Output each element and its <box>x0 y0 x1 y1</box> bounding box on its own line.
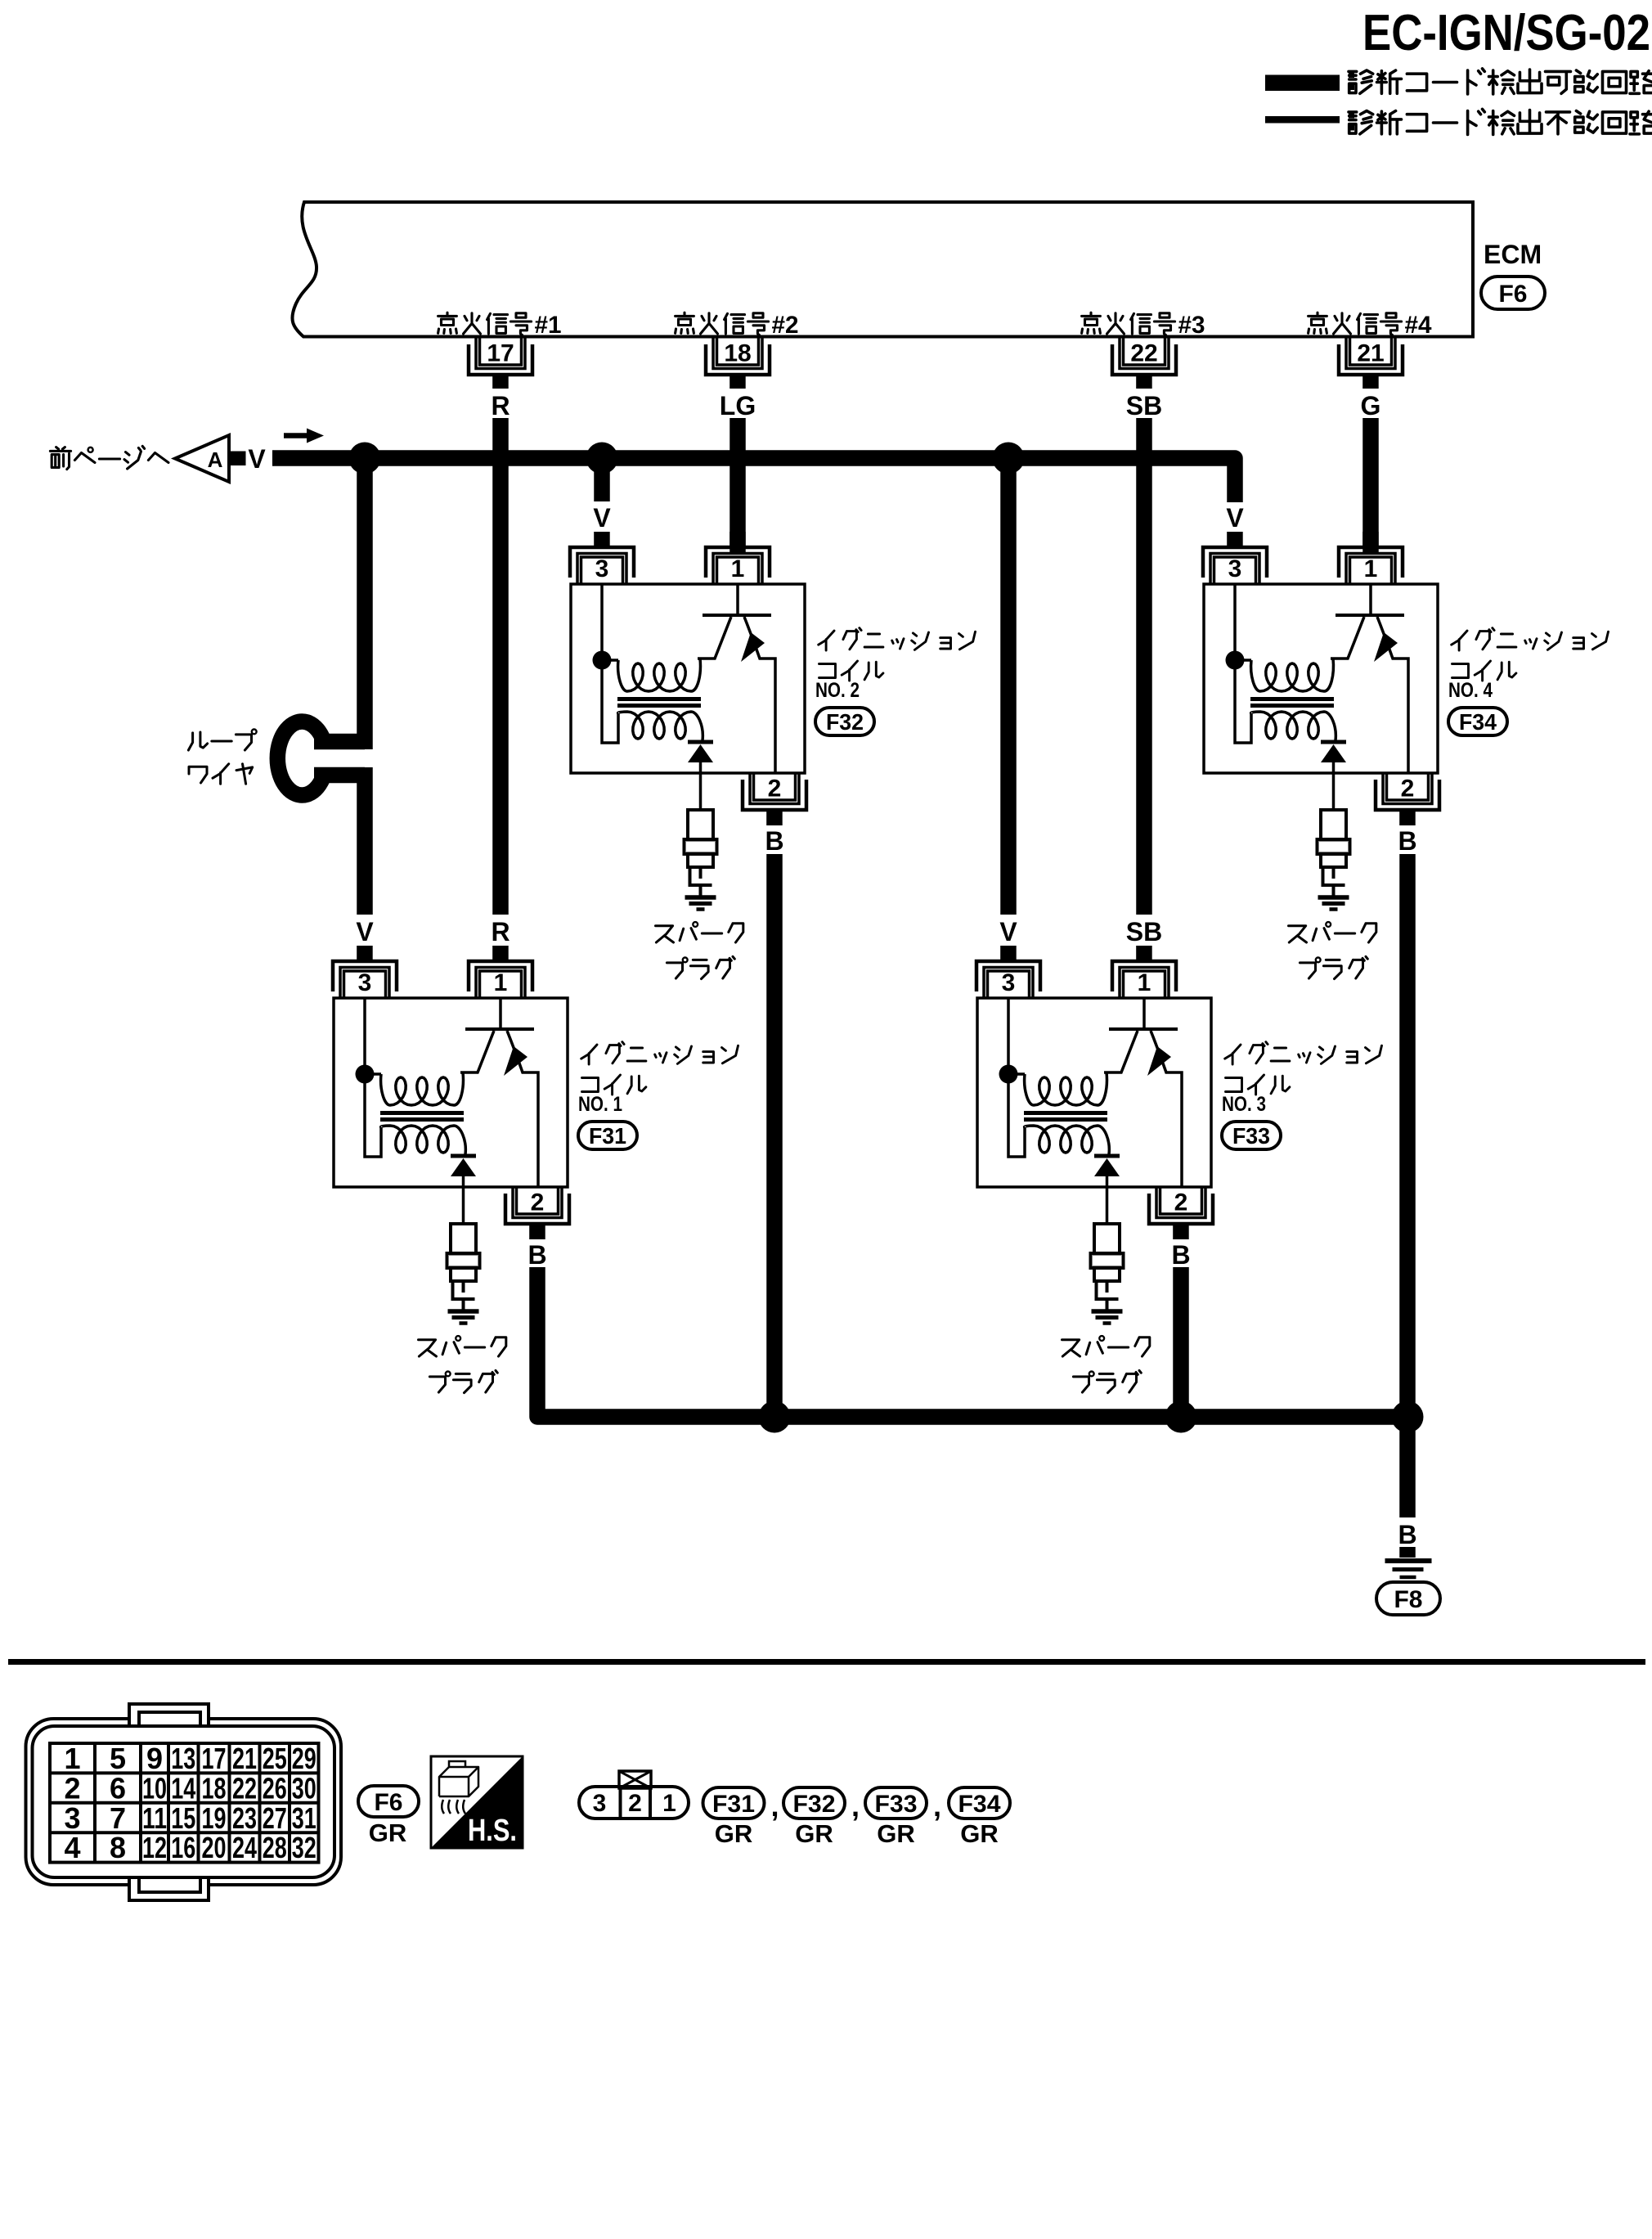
svg-text:#2: #2 <box>772 312 799 339</box>
svg-text:,: , <box>851 1789 860 1823</box>
diode D1 (HV arrow) <box>451 1156 476 1187</box>
svg-text:2: 2 <box>628 1790 642 1817</box>
svg-text:17: 17 <box>487 340 514 367</box>
transformer T4 core <box>1250 699 1334 706</box>
ECM signal label ignition signal #4 <box>1309 312 1432 339</box>
transformer T1 secondary winding <box>381 1126 466 1154</box>
svg-text:1: 1 <box>494 969 508 996</box>
node A off-page arrow (to previous page) <box>50 435 266 482</box>
junction dot bus/coil3 B <box>1165 1401 1197 1433</box>
svg-text:25: 25 <box>263 1742 287 1775</box>
ground connector oval F8 <box>1376 1582 1440 1615</box>
svg-text:18: 18 <box>202 1771 227 1805</box>
ECM signal label ignition signal #2 <box>676 312 799 339</box>
transistor Q2 (power stage) <box>698 584 775 773</box>
legend thick-line bar (diagnostic code detectable) <box>1265 75 1340 92</box>
svg-text:NO. 3: NO. 3 <box>1222 1093 1266 1116</box>
svg-text:1: 1 <box>662 1790 676 1817</box>
spark plug ground (coil NO.1) <box>448 1311 479 1324</box>
transformer T2 primary winding <box>602 584 700 743</box>
transformer T1 core <box>380 1113 464 1120</box>
ECM signal label ignition signal #3 <box>1082 312 1205 339</box>
diode D4 (HV arrow) <box>1321 742 1346 773</box>
svg-text:7: 7 <box>110 1801 126 1835</box>
coil name label NO.1 <box>578 1042 738 1116</box>
svg-text:,: , <box>933 1789 941 1823</box>
ECM signal label ignition signal #1 <box>438 312 562 339</box>
svg-text:3: 3 <box>1002 969 1016 996</box>
spark plug (coil NO.3) <box>1091 1224 1124 1310</box>
coil connector oval F34 <box>1448 708 1507 735</box>
svg-text:SB: SB <box>1126 391 1162 420</box>
ground wire stub <box>1399 1547 1416 1558</box>
svg-text:B: B <box>527 1240 546 1270</box>
connector oval F6 (bottom) <box>358 1786 419 1817</box>
svg-text:28: 28 <box>263 1831 287 1864</box>
node dot coil3 primary tap <box>999 1065 1018 1084</box>
transistor Q4 (power stage) <box>1331 584 1408 773</box>
svg-text:GR: GR <box>877 1819 915 1848</box>
svg-text:23: 23 <box>232 1801 257 1835</box>
node dot coil4 primary tap <box>1226 651 1245 670</box>
spark plug label (coil NO.4) <box>1289 922 1376 979</box>
svg-text:B: B <box>1398 826 1416 856</box>
wire: V drop to coil No.1 (lower) <box>357 767 373 915</box>
spark plug (coil NO.1) <box>447 1224 480 1310</box>
wire B: coil3 pin2 down <box>1173 1267 1189 1425</box>
svg-text:F31: F31 <box>589 1123 626 1149</box>
diode D3 (HV arrow) <box>1094 1156 1120 1187</box>
svg-text:NO. 2: NO. 2 <box>815 679 860 702</box>
wire coil1 to spark plug <box>462 1187 465 1224</box>
svg-text:32: 32 <box>292 1831 316 1864</box>
svg-text:2: 2 <box>531 1189 545 1216</box>
svg-text:27: 27 <box>263 1801 287 1835</box>
svg-text:,: , <box>770 1789 779 1823</box>
svg-text:1: 1 <box>1138 969 1151 996</box>
svg-text:8: 8 <box>110 1831 126 1864</box>
wire B: coil2 pin2 down <box>766 854 783 1425</box>
wire G: ECM 21 to coil4 pin1 <box>1362 418 1379 554</box>
spark plug (coil NO.2) <box>685 810 717 896</box>
node dot coil2 primary tap <box>593 651 612 670</box>
coil2 pin 3 connector <box>570 532 634 584</box>
svg-text:11: 11 <box>142 1801 167 1835</box>
coil connector oval F32 <box>815 708 874 735</box>
svg-text:19: 19 <box>202 1801 227 1835</box>
svg-text:SB: SB <box>1126 917 1162 946</box>
svg-text:F6: F6 <box>1498 281 1527 308</box>
wire coil4 to spark plug <box>1332 773 1336 810</box>
svg-text:F34: F34 <box>1459 709 1497 735</box>
ECM pin 17 connector <box>469 338 532 389</box>
ECM connector oval F6 <box>1481 277 1545 309</box>
coil1 pin 2 connector <box>505 1187 569 1239</box>
svg-text:30: 30 <box>292 1771 316 1805</box>
coil4 pin 3 connector <box>1203 532 1267 584</box>
svg-text:F33: F33 <box>1232 1123 1270 1149</box>
svg-text:3: 3 <box>358 969 372 996</box>
transformer T3 secondary winding <box>1025 1126 1110 1154</box>
svg-text:F6: F6 <box>374 1789 402 1816</box>
coil3 pin 1 connector <box>1112 946 1176 998</box>
svg-text:B: B <box>1398 1520 1416 1549</box>
svg-text:LG: LG <box>720 391 756 420</box>
svg-text:V: V <box>248 444 266 474</box>
svg-text:#4: #4 <box>1405 312 1432 339</box>
coil1 pin 1 connector <box>469 946 532 998</box>
coil4 pin 1 connector <box>1339 532 1403 584</box>
coil3 pin 2 connector <box>1149 1187 1213 1239</box>
H.S. (harness side) icon <box>431 1756 523 1848</box>
wire LG: ECM 18 to coil2 pin1 <box>729 418 746 554</box>
wire: top V bus <box>272 458 1235 502</box>
ground symbol F8 <box>1385 1561 1432 1577</box>
svg-text:GR: GR <box>715 1819 753 1848</box>
ignition coil NO.1 box <box>334 998 568 1187</box>
svg-text:2: 2 <box>1401 776 1415 803</box>
junction dot bus/coil2 B <box>759 1401 791 1433</box>
svg-text:5: 5 <box>110 1742 126 1775</box>
junction dot bus/coil4 B <box>1392 1401 1424 1433</box>
svg-text:6: 6 <box>110 1771 126 1805</box>
svg-text:3: 3 <box>593 1790 607 1817</box>
junction dot bus/coil2 <box>586 443 618 474</box>
coil4 pin 2 connector <box>1376 773 1439 825</box>
svg-text:B: B <box>765 826 783 856</box>
svg-text:18: 18 <box>724 340 751 367</box>
svg-text:V: V <box>356 917 374 946</box>
ignition coil NO.3 box <box>977 998 1211 1187</box>
ECM box U1 <box>292 202 1473 337</box>
svg-text:NO. 4: NO. 4 <box>1448 679 1493 702</box>
svg-text:17: 17 <box>202 1742 227 1775</box>
coil2 pin 1 connector <box>706 532 770 584</box>
svg-text:29: 29 <box>292 1742 316 1775</box>
coil3 pin 3 connector <box>976 946 1040 998</box>
transformer T1 primary winding <box>365 998 463 1157</box>
svg-text:22: 22 <box>1130 340 1157 367</box>
svg-text:R: R <box>491 391 510 420</box>
wire: V drop to coil No.3 <box>1000 458 1017 915</box>
svg-text:V: V <box>1226 503 1244 533</box>
wire: V drop to coil No.1 (upper) <box>357 458 373 749</box>
transformer T3 core <box>1024 1113 1107 1120</box>
svg-text:A: A <box>208 447 223 472</box>
connector oval F31 (bottom) <box>703 1787 765 1819</box>
flow direction arrow <box>284 429 324 443</box>
transistor Q1 (power stage) <box>460 998 538 1187</box>
transformer T4 primary winding <box>1235 584 1333 743</box>
transformer T4 secondary winding <box>1251 712 1336 740</box>
svg-text:1: 1 <box>64 1742 80 1775</box>
svg-text:31: 31 <box>292 1801 316 1835</box>
wire coil3 to spark plug <box>1106 1187 1109 1224</box>
transformer T2 core <box>617 699 701 706</box>
ECM pin 18 connector <box>706 338 770 389</box>
svg-text:F33: F33 <box>875 1791 918 1818</box>
loop wire label <box>188 730 256 785</box>
coil connector oval F31 <box>578 1122 637 1149</box>
svg-text:4: 4 <box>64 1831 80 1864</box>
svg-text:EC-IGN/SG-02: EC-IGN/SG-02 <box>1362 5 1650 61</box>
legend text: code detectable circuit <box>1349 69 1652 94</box>
coil name label NO.3 <box>1222 1042 1382 1116</box>
legend text: code not detectable circuit <box>1349 109 1652 134</box>
wire SB: ECM 22 to coil3 pin1 <box>1136 418 1152 915</box>
transistor Q3 (power stage) <box>1104 998 1182 1187</box>
spark plug label (coil NO.1) <box>419 1336 506 1393</box>
transformer T2 secondary winding <box>618 712 703 740</box>
svg-text:GR: GR <box>369 1819 407 1847</box>
svg-text:2: 2 <box>768 776 782 803</box>
svg-text:1: 1 <box>1364 555 1378 582</box>
ECM pin 22 connector <box>1112 338 1176 389</box>
svg-text:F8: F8 <box>1394 1586 1422 1613</box>
coil connector oval F33 <box>1222 1122 1281 1149</box>
svg-text:26: 26 <box>263 1771 287 1805</box>
spark plug label (coil NO.2) <box>656 922 743 979</box>
ignition coil NO.2 box <box>571 584 805 773</box>
spark plug ground (coil NO.3) <box>1092 1311 1123 1324</box>
svg-text:21: 21 <box>232 1742 257 1775</box>
svg-text:F34: F34 <box>958 1791 1001 1818</box>
svg-text:V: V <box>999 917 1017 946</box>
loop wire <box>277 722 365 795</box>
svg-text:21: 21 <box>1357 340 1384 367</box>
svg-text:20: 20 <box>202 1831 227 1864</box>
svg-text:2: 2 <box>1174 1189 1188 1216</box>
ECM pin 21 connector <box>1339 338 1403 389</box>
svg-text:F32: F32 <box>826 709 864 735</box>
wire coil2 to spark plug <box>699 773 703 810</box>
svg-text:#1: #1 <box>535 312 562 339</box>
connector oval F33 (bottom) <box>865 1787 927 1819</box>
svg-text:V: V <box>593 503 611 533</box>
svg-text:NO. 1: NO. 1 <box>578 1093 622 1116</box>
svg-text:B: B <box>1171 1240 1190 1270</box>
svg-text:ECM: ECM <box>1484 240 1542 269</box>
svg-text:GR: GR <box>960 1819 999 1848</box>
coil 3-pin connector face view <box>579 1771 689 1819</box>
transformer T3 primary winding <box>1008 998 1107 1157</box>
svg-text:22: 22 <box>232 1771 257 1805</box>
svg-text:#3: #3 <box>1178 312 1205 339</box>
wire R: ECM 17 to coil1 pin1 <box>492 418 509 915</box>
svg-text:GR: GR <box>795 1819 833 1848</box>
svg-text:G: G <box>1361 391 1381 420</box>
spark plug (coil NO.4) <box>1318 810 1350 896</box>
legend thin-line bar (diagnostic code not detectable) <box>1265 116 1340 124</box>
junction dot bus/coil3 <box>993 443 1025 474</box>
page divider rule <box>8 1659 1645 1665</box>
svg-text:9: 9 <box>146 1742 163 1775</box>
wire B: coil4 pin2 down <box>1399 854 1416 1425</box>
svg-text:F31: F31 <box>712 1791 755 1818</box>
svg-text:24: 24 <box>232 1831 257 1864</box>
wire B: coil1 pin2 to ground bus <box>537 1267 1407 1417</box>
spark plug ground (coil NO.2) <box>685 897 716 910</box>
wire: ground drop <box>1399 1417 1416 1517</box>
coil2 pin 2 connector <box>743 773 806 825</box>
svg-text:3: 3 <box>595 555 609 582</box>
connector oval F34 (bottom) <box>949 1787 1010 1819</box>
ECM 32-pin connector face view <box>26 1702 342 1900</box>
svg-text:15: 15 <box>171 1801 195 1835</box>
coil1 pin 3 connector <box>333 946 397 998</box>
svg-text:3: 3 <box>1228 555 1242 582</box>
coil name label NO.2 <box>815 628 976 702</box>
ECM connector pin grid <box>50 1742 319 1864</box>
svg-text:12: 12 <box>142 1831 167 1864</box>
coil name label NO.4 <box>1448 628 1609 702</box>
svg-text:14: 14 <box>171 1771 195 1805</box>
svg-text:16: 16 <box>171 1831 195 1864</box>
node dot coil1 primary tap <box>356 1065 375 1084</box>
svg-text:3: 3 <box>64 1801 80 1835</box>
svg-text:1: 1 <box>731 555 745 582</box>
connector oval F32 (bottom) <box>783 1787 845 1819</box>
ignition coil NO.4 box <box>1204 584 1438 773</box>
svg-text:R: R <box>491 917 510 946</box>
junction dot bus/coil1 <box>349 443 381 474</box>
svg-text:10: 10 <box>142 1771 167 1805</box>
spark plug label (coil NO.3) <box>1062 1336 1150 1393</box>
wire: V drop to coil No.2 <box>594 458 610 501</box>
spark plug ground (coil NO.4) <box>1318 897 1349 910</box>
diode D2 (HV arrow) <box>688 742 713 773</box>
svg-text:H.S.: H.S. <box>468 1814 517 1848</box>
svg-text:13: 13 <box>171 1742 195 1775</box>
svg-text:F32: F32 <box>793 1791 836 1818</box>
svg-text:2: 2 <box>64 1771 80 1805</box>
